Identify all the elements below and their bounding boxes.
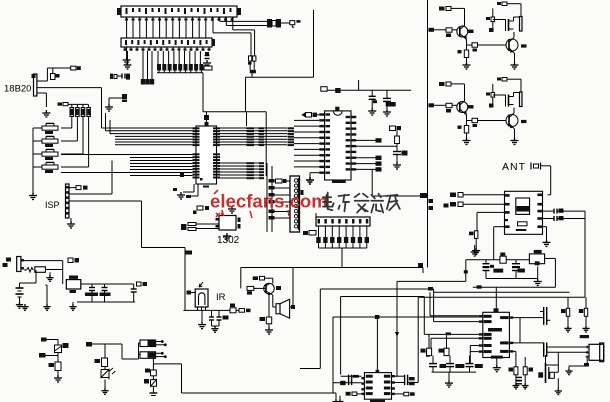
wire mic top [545,355,547,363]
ground (amp caps) [448,372,450,380]
wire buzzer to label [281,22,290,24]
wire right vertical x585 [584,211,586,297]
junction (bus E) [375,315,380,319]
wire J1 pin17 to buzzer [225,17,227,26]
ground (bottom bus) [332,399,339,402]
IR receiver U5 box [195,289,208,307]
wire corner x141 to y247 [141,201,143,248]
MCU right pin stubs upper [213,127,220,129]
MOSFET M1 gate resistor [491,17,495,22]
capacitor C7 pair [485,260,487,264]
J1 right end cap [237,8,241,15]
capacitor C8 pair [515,260,517,264]
wire LED leg [92,343,122,345]
wires crystal to 1302 [196,223,219,225]
U9 bottom right label [395,393,404,395]
transistor Q3 8550 (speaker) [264,283,275,294]
wire emitter to Q2b [467,120,507,122]
cell 1 input1 wire [451,7,465,9]
U9 left wires [341,375,362,377]
resistor pull-up left of J4 [309,231,316,236]
trimmer RP1 [55,345,62,353]
ground (J3 top) [306,177,314,184]
wires crystal to rail [249,61,251,70]
U4 bottom text [516,229,527,231]
U9 right wires [395,375,405,377]
resistor network RN1 4 resistors [70,108,74,117]
ground (filter top-left) [471,249,479,256]
wire emitter to Q1b [467,44,507,46]
J6 bottom label [584,363,589,366]
ground (J6) [568,366,570,368]
MCU bottom-left wires [193,184,195,192]
wire vertical x266 down to LCD header [265,112,267,176]
U3 right side wires + labels [356,139,375,141]
U4 right pin stubs [537,194,542,197]
J2 right end cap [212,39,215,46]
caps ground bus [91,291,93,303]
junction arrow on x397 [395,332,399,337]
ground (C6) [383,109,391,116]
ground (trimmer) [57,371,59,376]
net label P0 top [185,251,192,255]
inline resistor on rail [500,256,506,263]
wire bus A y267 [241,267,423,269]
RN1 bottom feeders to buttons [71,117,73,129]
bus feeder verticals [105,113,107,131]
net label row under J2 [157,64,161,71]
battery BT1 [16,287,24,289]
net label column x258-264 upper [259,127,265,129]
wire x336 to ground [335,393,337,399]
ground (IR) [201,310,203,321]
net label under x203 [204,115,209,120]
resistor R 4.7k [474,231,478,239]
net label column x246-254 upper [247,127,255,129]
wire bus C y289 [320,288,433,290]
net label P3 near bus [444,204,449,208]
ground (filter) [534,279,542,286]
wire bus C left vertical x320 [319,289,321,369]
grounds (amp right) [515,375,517,383]
IR ray arrow [199,282,203,287]
wire x418 to bottom IC caps [408,382,418,384]
wire vertical from bus to row [202,73,204,112]
label +5V out [137,282,142,286]
wire bus E y317 [333,316,479,318]
J3 connection stubs + labels [272,180,290,182]
antenna connector symbol [530,163,532,170]
capacitor C9 (IR) [211,310,213,317]
headphone jack J6 [589,344,604,360]
wire speaker to rail [290,306,293,308]
MOSFET M2 gate cap label [489,104,494,108]
resistor R base 1k [446,103,452,107]
ISP series resistor + label [69,187,76,189]
component C3 lower right of sensor [122,94,127,99]
reset cluster bits [173,188,177,191]
IR pins down [197,307,199,310]
sensor U 18B20 body [34,74,37,96]
LED D1 [101,370,109,380]
wire rail down to regulator [62,261,64,284]
VCC label (speaker) [253,276,258,280]
wire horizontal y111 [203,111,266,113]
junction on bus C [428,287,433,291]
connector J1 LCD header strip (top) [121,6,237,17]
U4 right cap cluster [543,210,555,212]
wire y292 long [434,291,570,293]
wire drain rail [514,16,520,18]
net label (LED leg) [86,342,92,347]
Q2a label [468,105,474,108]
transistor cell 1 input1 label [439,7,445,11]
U9 right pin stubs [392,375,395,377]
J3 label [301,190,304,195]
ISP wire long right [69,200,142,202]
wire bus B left vertical x397 [396,281,398,376]
ground (switch) [49,272,51,275]
ground (speaker driver) [268,324,270,327]
wire vertical x313 up [313,10,315,77]
IC U9 body [364,373,391,400]
ground (R 4.7k) [475,238,477,247]
U9 bottom left label [346,392,351,396]
wire jack top rail [24,260,63,262]
wire J6 prong3 down [586,358,588,366]
wire x430 to amp pin1 [429,292,431,316]
capacitor C6 electrolytic on rail [386,90,388,98]
J2 pin1 wire to ground [127,51,129,62]
wire J1 pin16 to buzzer [219,17,221,21]
capacitor C12 [104,284,106,288]
cell 1 input2 wire [434,29,446,31]
wire sensor gnd [45,93,47,107]
IC U3 DIP body [325,111,351,180]
resistor R2 vertical near sensor [51,74,56,80]
wire bus B y281 [397,280,466,282]
resistor R pullup white box + label [71,66,76,70]
RC cluster resistor [395,136,400,144]
wire opto center down [152,358,154,370]
RN1 supply label [63,103,68,106]
U4 left pin stubs [505,194,510,197]
wire bus C right vertical to amp [433,289,435,322]
wire pullup to VCC rail [46,68,48,81]
crystal Y2 32768Hz bars [188,223,196,226]
ground (Q2a emitter) [463,138,471,145]
J4 pin wires + labels [318,226,320,237]
cell 2 input2 wire [434,104,446,106]
MCU part number text bar [203,186,209,188]
wire U3 P1.0 to RC cluster [356,145,397,147]
MCU bottom small pin [200,178,203,181]
wires upper-left bus to MCU [102,127,193,129]
module U4 nRF24L01 outline [505,191,543,234]
buzzer LS1 [267,19,272,28]
series resistor R (IR out) [230,308,236,313]
U3 bottom-left pin to ground [310,172,319,174]
J6 prongs [586,346,590,348]
bottom bus y393 [182,392,337,394]
junction label at end of bus A [418,263,423,267]
RF data label pair 2 [450,202,456,207]
resistor R2 (amp in) [444,348,449,355]
capacitor C13 right [133,284,135,289]
J1 pin wires with arrowheads [126,17,128,21]
decoupling rail y90 [327,89,411,91]
net label left of IR [187,291,192,295]
transistor cell 2 input1 label [439,82,445,86]
RF data label pair 1 [450,193,456,198]
ground (mic) [557,378,559,388]
wire J1 pin right to crystal drop 2 [213,32,251,34]
U3 pin1 input component [301,112,305,117]
wires lower-left bus to MCU [61,154,193,156]
mic MK1 electret [545,363,547,383]
wire bus collector under J2 [157,72,203,74]
capacitor at MCU bottom left [180,173,184,178]
mic wires [557,352,559,372]
ground (U2) [223,233,231,240]
wire J4 to main bus [341,248,343,268]
U3 right pins + labels [351,116,356,118]
U2 left pins [216,218,220,221]
IC U2 DS1302 body [219,216,236,231]
wire y247 horizontal [142,247,186,249]
label M-08 [580,335,589,338]
C7 labels [493,269,503,273]
capacitor C10 (IR) [218,310,220,317]
label +9V [68,258,73,263]
output cap pair 1 [543,307,545,316]
U9 left crystal caps [348,375,350,386]
opto U7 box 1 [140,340,156,347]
U10 inside labels left [484,315,492,318]
ground (battery) [19,297,21,302]
speaker driver rail [240,268,242,289]
MOSFET M1 symbol [505,19,507,31]
svg-text:18B20: 18B20 [4,84,31,95]
capacitor C5 on rail [371,90,373,96]
J2 left pin wires down with labels [142,51,144,79]
ground (J2 pin1) [124,62,132,69]
wire J4 top left [315,213,317,217]
U9 left pin stubs [361,377,364,379]
connector J2 header strip (second) [121,38,212,47]
net label column x258-264 lower [259,162,265,164]
wire opto left bus [138,343,140,359]
U10 left pins [479,315,483,317]
wire main right bus x427 [427,0,429,268]
junction (U10 input) [446,332,451,335]
MCU right pin stubs lower [213,153,220,155]
svg-text:ANT: ANT [502,161,526,173]
C9 C10 labels [223,316,229,320]
U9 inside labels left [366,375,373,378]
MCU U1 body [196,126,217,184]
wire x185 down to IR [184,248,186,311]
wires caps to right vertical [557,210,585,212]
ground (IR caps) [211,326,218,332]
resistor R emitter [466,119,468,125]
Q2b label [521,120,527,123]
net label near x420 [420,193,427,198]
ground (ISP) [70,218,72,221]
speaker LS2 [272,295,274,307]
cap pair below right [516,376,522,378]
wire U3 right down [371,169,373,196]
VCC label cell 1 [497,2,501,5]
ground (power rail) [69,304,76,310]
caps bottom bus [432,371,477,373]
J2 right-end decoupling cap [205,52,209,55]
svg-text:elecfans.com: elecfans.com [210,191,328,212]
junction mark on left vertical [464,270,468,273]
wire data2 [463,203,505,205]
ground (Q1b) [511,62,519,69]
capacitor C2 near strips [117,75,122,77]
filter rail y259.8 [466,259,530,261]
bus tap labels for RF [429,199,434,203]
transistor Q2b 8550 [506,115,518,127]
ground (MCU bottom) [177,192,185,199]
U10 right pins [509,316,513,318]
crystal Y1 series caps [249,56,252,61]
ground (RC cluster) [393,162,401,169]
resistor R white box at buzzer output [290,21,295,25]
ground (C5) [368,108,376,115]
ground (U3) [306,177,314,184]
ground (18B20) [42,110,50,117]
component white box J2 right [204,66,212,70]
cell 1 input2 tap on bus [429,28,435,32]
ground (bias1) [567,316,569,325]
wires to phone jack [547,346,588,348]
svg-text:IR: IR [216,292,226,303]
wire filter left vertical [465,260,467,282]
jack labels [6,258,11,262]
connector ISP bar [66,184,70,218]
J2 pin wires down to label row [157,51,159,64]
MOSFET M1 drain plate [520,17,523,32]
IR output label [236,309,239,311]
Q1b label [521,44,527,47]
wire drain rail [514,92,520,94]
diode D2 (opto leg) [151,380,157,387]
MOSFET M2 symbol [505,95,507,107]
MCU top pin [205,122,209,126]
wire bus A end down [422,268,424,274]
J1 left end cap [117,8,121,15]
U10 top pin [494,308,499,312]
ground (opto leg) [152,386,154,393]
ground (J1 pin1) [123,57,131,64]
wire ANT to RF module [541,165,551,167]
C8 labels [518,269,525,273]
wire opto to bottom bus [153,363,181,365]
wire data1 [463,194,505,196]
U7 output dots [156,341,161,343]
wire vertical x245 down [245,77,247,111]
net label 2 (trimmer) [39,353,46,358]
capacitor C11 [91,284,93,288]
resistor R (opto) [151,370,157,376]
U2 top wire + cap [221,210,223,216]
resistor R white box above J3 [276,179,283,183]
button common bus + ground [32,128,34,193]
ground (Q1a emitter) [463,62,471,69]
MOSFET M2 gate resistor [491,93,495,98]
resistor R coupling [472,118,478,122]
regulator U6 7805 [66,280,81,289]
net label arrow (buzzer) [296,20,300,23]
connector J4 P0 header bar [316,217,370,226]
ISP wire 2 [69,193,112,195]
inductor L1 box [529,254,544,264]
U9 inside labels right [384,375,391,378]
connector J3 vertical header [290,176,300,232]
U9 right crystal caps [404,375,406,386]
MOSFET M2 drain plate [520,92,523,107]
ground (Q2b) [511,138,519,145]
cell 2 input1 wire [451,83,465,85]
wire J1 pin right to crystal drop 1 [232,17,234,30]
wire amp vcc from y292 [495,287,497,308]
fuse zigzag [27,268,34,273]
wires MCU right bus lower [220,162,258,164]
capacitor label 22p [248,62,252,65]
wire rail y77 [246,76,314,78]
resistor network RN1 rail [63,103,88,105]
cell 2 input2 tap on bus [429,103,435,107]
ground (C3) [105,104,113,111]
U4 inner box crystal section [516,198,530,214]
output rail +5V [81,283,134,285]
wire bus D y296.5 [341,296,425,298]
ground (bias2) [585,316,587,325]
output cap pair 2 [543,343,545,352]
transistor Q1b 8550 [506,39,518,51]
J2 pin wires with arrowheads [124,47,126,51]
wire data4 down to filter rail [494,226,505,228]
caps gnd bus [211,320,213,326]
wires MCU right bus upper [220,127,287,129]
VCC label cell 2 [497,78,501,81]
rail feeder vertical [358,80,360,90]
wire x418 vertical [417,297,419,382]
U10 right wires + caps [513,317,543,319]
connector DC jack J5 [17,257,21,272]
opto U8 box 2 [140,352,156,359]
U3 top pin [335,107,339,111]
transistor Q2a 9013 [457,102,468,113]
U10 part number [491,356,503,359]
wire to trimmer [47,339,59,341]
net label column x246-254 lower [247,162,255,164]
U3 left pins + labels [319,113,324,115]
U10 center text [488,328,502,332]
Q1a label [468,30,474,33]
MCU left pin stubs lower [193,153,200,155]
wire bus E left vertical x333 [332,317,334,393]
wire vertical x246.5 down to label column [246,112,248,126]
U8 output dots [156,352,161,354]
ground (U9) [339,396,341,399]
resistor R (bias) 1 [566,308,569,316]
resistor R (bias) 2 [584,308,587,316]
ground (J2 right) [203,60,211,67]
